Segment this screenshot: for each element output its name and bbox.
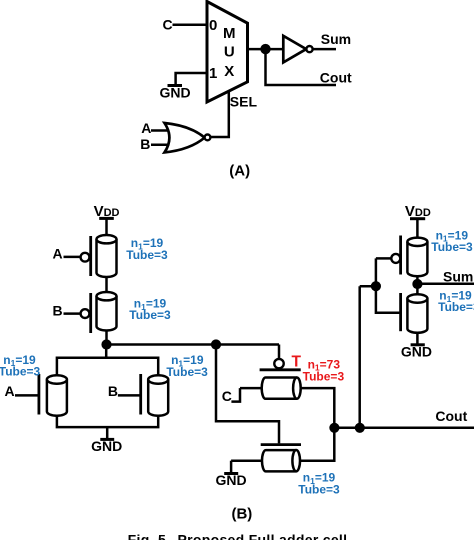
svg-text:C: C <box>222 388 232 404</box>
svg-text:Fig. 5. Proposed Full adder ce: Fig. 5. Proposed Full adder cell <box>128 532 348 540</box>
svg-text:A: A <box>141 120 151 136</box>
svg-text:Tube=3: Tube=3 <box>303 369 345 383</box>
svg-text:M: M <box>223 25 236 42</box>
svg-text:GND: GND <box>215 472 246 488</box>
svg-text:Cout: Cout <box>435 408 467 424</box>
svg-text:GND: GND <box>91 438 122 454</box>
svg-text:Tube=3: Tube=3 <box>431 240 473 254</box>
svg-text:Cout: Cout <box>320 70 352 86</box>
svg-text:Tube=3: Tube=3 <box>438 300 474 314</box>
svg-text:Tube=3: Tube=3 <box>298 483 340 497</box>
svg-text:0: 0 <box>209 17 217 34</box>
svg-text:GND: GND <box>401 344 432 360</box>
svg-text:Tube=3: Tube=3 <box>0 365 41 379</box>
svg-text:1: 1 <box>209 65 217 82</box>
svg-text:C: C <box>163 16 173 32</box>
svg-text:GND: GND <box>159 85 190 101</box>
svg-text:A: A <box>5 383 15 399</box>
svg-text:B: B <box>108 383 118 399</box>
svg-text:Sum: Sum <box>443 268 473 284</box>
svg-text:(B): (B) <box>231 506 252 523</box>
svg-text:X: X <box>224 63 234 80</box>
svg-text:T: T <box>292 353 302 370</box>
svg-text:SEL: SEL <box>230 93 258 109</box>
svg-text:Sum: Sum <box>321 31 351 47</box>
svg-text:(A): (A) <box>229 162 250 179</box>
svg-text:Tube=3: Tube=3 <box>126 248 168 262</box>
svg-text:B: B <box>140 136 150 152</box>
svg-text:Tube=3: Tube=3 <box>166 365 208 379</box>
svg-text:B: B <box>53 302 63 318</box>
svg-text:U: U <box>224 44 235 61</box>
svg-text:Tube=3: Tube=3 <box>129 308 171 322</box>
svg-text:A: A <box>53 246 63 262</box>
